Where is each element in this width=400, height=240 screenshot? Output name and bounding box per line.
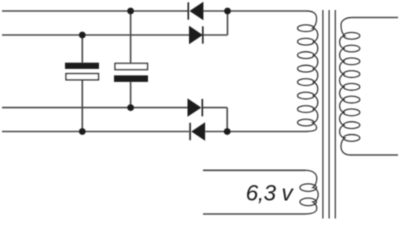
diode D3 cathode bar <box>201 99 203 116</box>
wire capacitor C2 top lead <box>130 11 132 63</box>
capacitor C1 filled top plate <box>65 63 99 69</box>
diode D1 triangle (points left) on L1 <box>190 2 204 20</box>
6.3V winding loops <box>300 184 317 206</box>
transformer core line 2 <box>328 10 330 219</box>
6.3V heater winding spine <box>306 170 319 214</box>
wire secondary bottom lead <box>350 154 398 156</box>
diode D2 triangle (points right) on L2 <box>189 26 203 44</box>
transformer primary winding spine (entry, right-side arcs, exit) <box>307 11 318 131</box>
diode D4 triangle (points left) on L4 <box>191 122 205 140</box>
junction dot on L2 at C1 lead <box>79 32 86 39</box>
wire capacitor C2 bottom lead <box>130 82 132 108</box>
wire vertical joining L3 and L4 <box>226 108 228 132</box>
wire capacitor C1 top lead <box>81 35 83 63</box>
transformer core line 1 <box>322 10 324 219</box>
wire rail L3 <box>2 107 188 109</box>
junction dot on L1 at diode bridge output <box>224 8 231 15</box>
capacitor C2 filled bottom plate <box>114 75 148 82</box>
wire rail L4 left segment <box>2 131 189 133</box>
wire top rail L1 left segment <box>2 10 188 12</box>
wire secondary top lead <box>352 17 398 19</box>
wire L3 stub after diode D3 <box>202 107 227 109</box>
transformer core line 3 <box>334 10 336 219</box>
capacitor C1 hollow bottom plate <box>66 74 99 80</box>
capacitor C2 hollow top plate <box>115 63 148 69</box>
wire L2 stub after diode D2 <box>203 34 228 36</box>
wire 6.3V winding bottom lead <box>203 213 306 215</box>
diode D3 triangle (points right) on L3 <box>188 98 202 116</box>
transformer secondary winding spine (entry, left-side arcs, exit) <box>340 18 352 156</box>
diode D1 cathode bar <box>187 2 189 19</box>
wire top rail L1 right segment <box>203 10 307 12</box>
diode D2 cathode bar <box>202 26 204 43</box>
wire capacitor C1 bottom lead <box>81 80 83 131</box>
wire vertical joining L1 and L2 <box>227 11 229 35</box>
svg-text:6,3 v: 6,3 v <box>246 181 295 206</box>
transformer secondary winding loops <box>343 32 359 141</box>
wire 6.3V winding top lead <box>203 169 306 171</box>
wire rail L2 <box>2 34 189 36</box>
wire rail L4 right segment <box>205 131 307 133</box>
junction dot on L1 at C2 lead <box>127 8 134 15</box>
transformer primary winding loops <box>298 25 315 126</box>
junction dot on L3 at C2 lead <box>127 104 134 111</box>
junction dot on L4 at C1 lead <box>79 128 86 135</box>
diode D4 anode bar <box>189 123 191 140</box>
junction dot on L4 at diode bridge output <box>224 128 231 135</box>
